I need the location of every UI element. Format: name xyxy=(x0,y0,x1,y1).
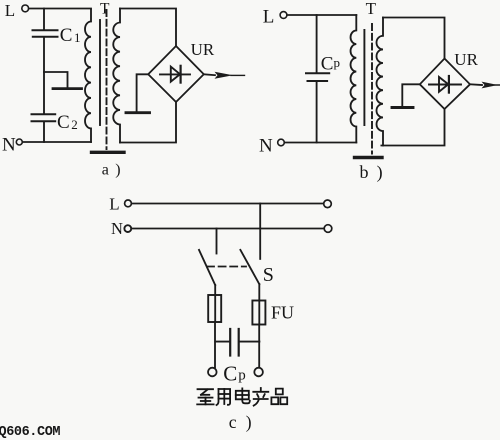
svg-text:N: N xyxy=(259,136,273,157)
svg-text:Q606.COM: Q606.COM xyxy=(0,425,60,440)
wire drop from L line xyxy=(259,204,261,259)
bridge rectifier UR diamond xyxy=(420,59,470,110)
wire N to primary bottom xyxy=(284,142,356,144)
label 电 xyxy=(236,388,250,403)
transformer core xyxy=(364,24,372,154)
svg-text:T: T xyxy=(366,0,377,18)
wire drop from N line xyxy=(216,229,218,254)
svg-text:L: L xyxy=(5,1,15,20)
fuse FU 1 xyxy=(208,295,221,322)
wire secondary top to bridge top xyxy=(383,18,445,59)
svg-text:T: T xyxy=(100,0,110,17)
terminal N right xyxy=(324,225,332,233)
terminal N xyxy=(259,136,284,157)
capacitor Cp (c) plates xyxy=(215,329,259,356)
transformer T primary winding xyxy=(85,10,91,143)
svg-text:c ): c ) xyxy=(229,412,254,432)
svg-text:b ): b ) xyxy=(360,162,385,183)
terminal N left xyxy=(111,219,131,238)
label 用 xyxy=(217,389,231,405)
label 至 xyxy=(197,389,213,404)
terminal output right xyxy=(254,368,263,377)
wire secondary bottom to bridge bottom xyxy=(381,109,444,146)
wire L to primary top xyxy=(29,8,91,10)
ground (bridge) xyxy=(126,111,150,114)
wire L to primary top xyxy=(287,14,356,16)
wire secondary bottom to bridge bottom xyxy=(120,102,176,143)
terminal L xyxy=(263,6,287,27)
L line xyxy=(132,203,324,205)
transformer core xyxy=(100,10,107,149)
wire vertical capacitor branch xyxy=(43,9,45,143)
svg-text:L: L xyxy=(109,194,119,213)
svg-text:UR: UR xyxy=(454,50,478,69)
transformer T primary winding xyxy=(351,15,357,143)
transformer T secondary winding xyxy=(113,9,120,143)
wire secondary top to bridge top xyxy=(120,9,176,47)
wire blade1 to fuse1 xyxy=(214,285,216,295)
capacitor C2 xyxy=(32,112,78,133)
terminal L right xyxy=(324,200,332,208)
ground (core) xyxy=(92,151,125,154)
switch linkage dashed xyxy=(207,266,246,268)
fuse FU 2 xyxy=(252,301,265,325)
capacitor Cp xyxy=(306,53,340,81)
diode inside bridge xyxy=(160,66,190,83)
terminal output left xyxy=(208,368,217,377)
svg-text:C1: C1 xyxy=(60,25,81,46)
wire bridge left vertex to ground xyxy=(137,74,149,111)
svg-text:N: N xyxy=(111,219,123,238)
terminal N xyxy=(2,135,22,156)
svg-text:L: L xyxy=(263,6,275,27)
svg-text:Cp: Cp xyxy=(321,53,340,74)
switch S blade 2 xyxy=(240,250,259,284)
label 品 xyxy=(271,389,287,405)
wire blade2 to fuse2 xyxy=(258,284,260,300)
wire Cp branch vertical xyxy=(316,15,318,143)
bridge rectifier UR diamond xyxy=(148,46,204,102)
svg-text:C2: C2 xyxy=(57,112,78,133)
terminal L left xyxy=(109,194,131,213)
svg-text:a ): a ) xyxy=(102,162,122,179)
label 产 xyxy=(253,388,268,406)
wire fuse1 down xyxy=(214,322,216,367)
transformer T secondary winding xyxy=(377,18,384,146)
svg-text:FU: FU xyxy=(271,303,294,323)
svg-text:N: N xyxy=(2,135,16,156)
wire fuse2 down xyxy=(258,325,260,368)
svg-text:UR: UR xyxy=(191,40,215,59)
ground (between C1 and C2) xyxy=(44,72,82,89)
terminal L xyxy=(5,1,29,20)
wire bridge left vertex to ground xyxy=(402,84,420,106)
N line xyxy=(132,228,325,230)
arrow output xyxy=(470,82,500,89)
wire N to primary bottom xyxy=(23,141,91,143)
ground (core) xyxy=(355,156,383,159)
svg-text:S: S xyxy=(263,264,274,286)
ground (bridge) xyxy=(392,106,413,109)
capacitor C1 xyxy=(33,25,81,46)
svg-text:Cp: Cp xyxy=(223,362,246,386)
arrow output xyxy=(204,72,245,79)
switch S blade 1 xyxy=(199,250,215,285)
diode inside bridge xyxy=(429,76,461,93)
